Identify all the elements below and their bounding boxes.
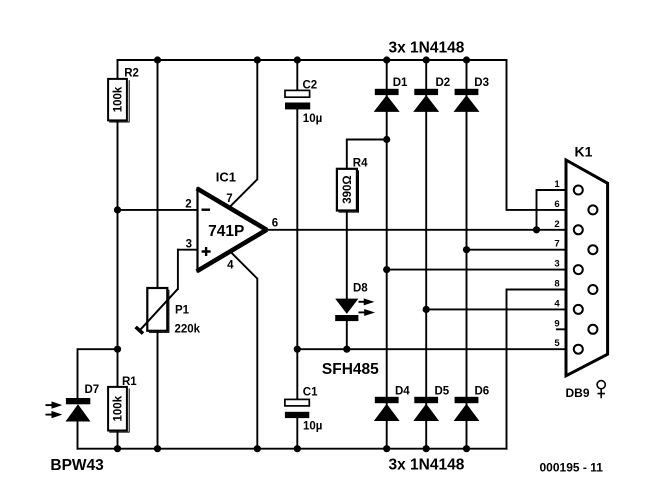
wire DB9 pin4 line: [426, 308, 574, 310]
photodiode D7 BPW43: [46, 384, 105, 474]
diode D6: [454, 386, 490, 422]
wire D8 cathode lead: [346, 321, 348, 349]
junction bottom rail / C1 column: [294, 445, 301, 452]
svg-text:D7: D7: [85, 384, 100, 396]
svg-text:3: 3: [186, 239, 192, 251]
svg-text:R1: R1: [122, 376, 137, 388]
capacitor C2: [285, 80, 322, 126]
pin 8 circle: [588, 285, 597, 294]
svg-text:R2: R2: [124, 68, 139, 80]
svg-text:R4: R4: [353, 158, 368, 170]
junction node DB9 pin4 tap: [423, 306, 430, 313]
wire capacitor column upper: [296, 60, 298, 90]
svg-text:100k: 100k: [113, 86, 125, 112]
svg-text:2: 2: [185, 198, 191, 210]
wire op-amp pin2 input: [118, 209, 198, 211]
wire P1 column: [157, 60, 159, 449]
capacitor C1: [285, 387, 323, 433]
junction node DB9 pin7 tap: [463, 246, 470, 253]
wire bottom rail: [78, 448, 507, 450]
svg-text:K1: K1: [575, 143, 593, 159]
svg-text:8: 8: [554, 279, 559, 290]
svg-text:7: 7: [554, 239, 559, 250]
wire DB9 pin9 stub: [557, 328, 589, 330]
svg-text:3x 1N4148: 3x 1N4148: [389, 457, 465, 474]
wire DB9 pin6 from top rail: [507, 60, 589, 210]
svg-text:3: 3: [554, 259, 559, 270]
svg-text:D3: D3: [474, 77, 489, 89]
svg-text:IC1: IC1: [216, 169, 236, 184]
svg-text:2: 2: [554, 219, 559, 230]
junction top rail / D1: [383, 56, 390, 63]
wire DB9 pin8 from bottom rail: [507, 290, 589, 449]
junction node D8 cathode: [343, 346, 350, 353]
junction bottom rail / D6: [463, 445, 470, 452]
wire D7 bottom lead: [77, 421, 79, 449]
svg-text:6: 6: [554, 199, 559, 210]
diode D5: [413, 386, 450, 422]
wire DB9 pin3 line: [387, 269, 574, 271]
junction node R4 tap on D1 column: [383, 136, 390, 143]
svg-text:D4: D4: [395, 386, 410, 398]
svg-text:100k: 100k: [113, 395, 125, 421]
junction top rail / P1 column: [154, 56, 161, 63]
wire capacitor column middle: [296, 109, 298, 399]
svg-text:9: 9: [554, 318, 559, 329]
svg-text:4: 4: [554, 298, 560, 309]
junction bottom rail / D5: [423, 445, 430, 452]
op-amp U1 IC1 741P: [185, 169, 278, 272]
wire DB9 pin7 line: [467, 249, 589, 251]
junction top rail / D2: [423, 56, 430, 63]
svg-text:P1: P1: [175, 305, 190, 317]
svg-text:SFH485: SFH485: [322, 361, 379, 378]
svg-text:6: 6: [272, 217, 278, 229]
junction node pin5 line / C1 column: [294, 346, 301, 353]
wire pin4 column: [232, 254, 257, 449]
svg-text:BPW43: BPW43: [50, 457, 104, 474]
svg-text:220k: 220k: [175, 324, 201, 336]
wire left column R2/R1: [117, 60, 119, 449]
svg-text:5: 5: [554, 338, 560, 349]
pin 4 circle: [574, 305, 583, 314]
pin 6 circle: [588, 205, 597, 214]
svg-text:4: 4: [227, 260, 234, 272]
pin 9 circle: [588, 325, 597, 334]
connector K1 DB9: [554, 143, 607, 400]
female symbol: [597, 381, 605, 389]
svg-text:1: 1: [554, 179, 560, 190]
wire DB9 pin1 tie: [537, 190, 575, 230]
svg-text:390Ω: 390Ω: [342, 175, 354, 203]
junction node D7 top: [114, 346, 121, 353]
potentiometer P1: [136, 288, 201, 336]
pin 3 circle: [574, 265, 583, 274]
junction bottom rail / R1: [114, 445, 121, 452]
pin 7 circle: [588, 245, 597, 254]
wire DB9 pin5 line: [297, 348, 574, 350]
junction bottom rail / D4: [383, 445, 390, 452]
wire D1/D4 column: [386, 60, 388, 449]
junction top rail / C2 column: [294, 56, 301, 63]
wire pin7 column: [229, 60, 257, 208]
svg-text:DB9: DB9: [566, 386, 590, 400]
junction node DB9 pin3 tap: [383, 266, 390, 273]
wire D2/D5 column: [425, 60, 427, 449]
wire top supply rail: [118, 59, 507, 61]
resistor R4: [337, 158, 368, 213]
wire P1 wiper vertical: [177, 250, 179, 289]
junction top rail / pin7 column: [254, 56, 261, 63]
wire D3/D6 column: [466, 60, 468, 449]
wire op-amp pin3 input: [178, 249, 198, 251]
diode D3: [454, 77, 490, 112]
wire capacitor column lower: [296, 418, 298, 449]
junction node DB9 pin1-pin2 tie: [533, 226, 540, 233]
wire R4 top lead: [347, 140, 387, 169]
svg-text:D1: D1: [393, 77, 408, 89]
svg-text:D8: D8: [353, 283, 368, 295]
svg-text:000195 - 11: 000195 - 11: [540, 461, 604, 475]
diode D1: [374, 77, 408, 112]
junction bottom rail / P1 column: [154, 445, 161, 452]
LED D8 SFH485: [322, 283, 379, 379]
junction node pin2 input: [114, 206, 121, 213]
junction bottom rail / pin4 column: [254, 445, 261, 452]
svg-text:C1: C1: [303, 387, 318, 399]
wire R4 bottom lead to D8: [346, 211, 348, 299]
svg-text:D2: D2: [436, 77, 451, 89]
svg-text:D6: D6: [475, 386, 490, 398]
wire D7 branch top: [78, 349, 118, 397]
wire op-amp output to DB9 pin2: [267, 229, 575, 231]
resistor R1: [108, 376, 137, 432]
junction top rail / D3: [463, 56, 470, 63]
pin 5 circle: [574, 345, 583, 354]
pin 2 circle: [574, 225, 583, 234]
svg-text:D5: D5: [435, 386, 450, 398]
svg-text:10µ: 10µ: [303, 113, 322, 125]
svg-text:741P: 741P: [208, 223, 244, 240]
svg-text:C2: C2: [303, 80, 318, 92]
svg-text:10µ: 10µ: [303, 421, 322, 433]
svg-text:3x 1N4148: 3x 1N4148: [389, 39, 465, 56]
pin 1 circle: [574, 186, 583, 195]
resistor R2: [108, 68, 139, 122]
diode D2: [413, 77, 450, 112]
svg-text:7: 7: [226, 193, 232, 205]
diode D4: [374, 386, 411, 422]
